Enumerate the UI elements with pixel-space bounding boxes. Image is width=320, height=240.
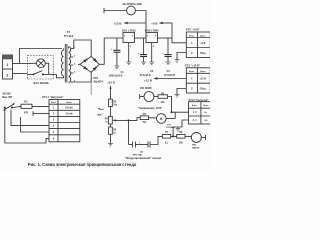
connector X3 jack bbox=[129, 142, 143, 148]
ground DA2 bbox=[149, 62, 154, 65]
svg-text:Общ: Общ bbox=[200, 52, 205, 55]
label VD1 bbox=[93, 76, 103, 83]
transformer T1 secondary winding bbox=[69, 47, 71, 83]
svg-text:Цепь: Цепь bbox=[200, 35, 206, 37]
ground C2 bbox=[141, 62, 146, 65]
svg-text:"Модулированный" сигнал: "Модулированный" сигнал bbox=[125, 156, 162, 160]
label SB pushbutton bbox=[2, 93, 12, 99]
svg-text:Конт.: Конт. bbox=[192, 105, 198, 107]
label C3 bbox=[164, 70, 175, 77]
terminal stub XT4.1 row2 bbox=[33, 111, 49, 115]
wire XT4.2 row2 down to chain bbox=[173, 120, 188, 136]
resistor R2 bbox=[109, 99, 118, 116]
wire XT4.1 row5 bbox=[21, 117, 49, 132]
ground R5 bbox=[108, 144, 113, 147]
meter PA2 bbox=[191, 132, 205, 142]
ground C3 bbox=[166, 62, 171, 65]
ground stub near XT4.2 bbox=[176, 127, 180, 131]
svg-text:Вил. ВП: Вил. ВП bbox=[2, 96, 12, 99]
svg-text:+5 В: +5 В bbox=[200, 42, 205, 45]
svg-text:+5 В: +5 В bbox=[151, 21, 158, 25]
pushbutton SB bbox=[3, 103, 21, 111]
svg-text:АН DS05А-12В: АН DS05А-12В bbox=[122, 2, 141, 6]
svg-text:+12 В: +12 В bbox=[144, 79, 153, 83]
svg-text:Рис. 1. Схема электрическая пр: Рис. 1. Схема электрическая принципиальн… bbox=[28, 162, 137, 167]
label C1 bbox=[109, 71, 125, 78]
device K circle bbox=[157, 114, 176, 124]
svg-text:Цепь: Цепь bbox=[203, 105, 209, 107]
wire bridge minus down bbox=[90, 82, 92, 95]
svg-text:"Вых.: "Вых. bbox=[98, 109, 105, 111]
meter PA1 bbox=[140, 87, 158, 102]
ground C1 bbox=[114, 66, 119, 69]
svg-text:1000,0х25 В: 1000,0х25 В bbox=[109, 75, 123, 78]
svg-text:SA1 В100Б: SA1 В100Б bbox=[33, 81, 48, 85]
svg-text:лин.": лин." bbox=[97, 114, 103, 116]
svg-text:2: 2 bbox=[6, 73, 8, 77]
svg-text:Конт.: Конт. bbox=[189, 35, 195, 37]
svg-text:Конт.: Конт. bbox=[189, 71, 195, 73]
label VT1 bbox=[167, 124, 176, 129]
resistor R7 bbox=[162, 132, 176, 144]
svg-text:ХТ3 "+12 В": ХТ3 "+12 В" bbox=[185, 64, 201, 68]
wire bridge plus to rail bbox=[99, 38, 123, 64]
wire SB to ground bus and XT4.1 row6 bbox=[5, 108, 49, 143]
wire XT3 row2 to ground bbox=[177, 89, 186, 95]
wire node to XT4.2 row1 bbox=[171, 112, 189, 119]
resistor R3 bbox=[140, 114, 156, 124]
transformer secondary pin stubs and numbers bbox=[71, 47, 76, 83]
svg-text:ХТ2 "+5 В": ХТ2 "+5 В" bbox=[186, 28, 201, 32]
ground XT2 bbox=[175, 60, 180, 63]
svg-text:РА1 М42В: РА1 М42В bbox=[140, 87, 152, 90]
svg-text:КЦ407А: КЦ407А bbox=[94, 79, 104, 83]
wire +5 vertical to XT2 bbox=[172, 23, 186, 43]
diode bridge VD1 bbox=[78, 56, 99, 72]
net label +12V top bbox=[113, 21, 146, 25]
resistor R1 bbox=[21, 100, 32, 114]
ground XT3 bbox=[175, 95, 180, 98]
wire XT2 row2 to ground bbox=[177, 53, 186, 60]
capacitor C2 bbox=[138, 38, 147, 62]
transformer T1 primary winding bbox=[62, 49, 64, 77]
connector XP1 mains plug bbox=[3, 55, 13, 79]
svg-text:+12 В: +12 В bbox=[113, 21, 122, 25]
capacitor C1 bbox=[111, 38, 120, 66]
svg-text:Нг: Нг bbox=[205, 112, 208, 114]
capacitor C4 bbox=[142, 136, 162, 147]
svg-text:"Напряжение, 20 В": "Напряжение, 20 В" bbox=[138, 107, 163, 110]
wire XT4.1 row4 bbox=[11, 110, 49, 126]
wire XP1 pin1 to lamp and top bus bbox=[13, 49, 62, 64]
capacitor C3 bbox=[162, 38, 171, 62]
svg-text:Общ: Общ bbox=[200, 87, 205, 90]
svg-text:+12 В: +12 В bbox=[200, 78, 207, 81]
svg-text:VD1: VD1 bbox=[93, 76, 99, 80]
svg-text:DA2 L7805: DA2 L7805 bbox=[145, 29, 159, 33]
regulator DA2 L7805 bbox=[145, 29, 159, 62]
indicator lamp HL1 top bbox=[104, 6, 146, 38]
switch SA1 contacts bbox=[27, 71, 63, 78]
resistor R5 bbox=[109, 127, 117, 144]
switch unit SA1 dashed enclosure bbox=[27, 56, 53, 80]
resistor R8 bbox=[177, 132, 191, 144]
lamp HL in switch bbox=[28, 59, 49, 75]
net label +5V top bbox=[151, 21, 172, 25]
svg-text:-10 мА: -10 мА bbox=[65, 113, 73, 116]
svg-text:1: 1 bbox=[6, 63, 8, 67]
ground DA1 bbox=[126, 62, 131, 65]
svg-text:Конт.: Конт. bbox=[51, 102, 57, 104]
wire secondary bottom to bridge bbox=[73, 72, 91, 82]
label X3 bbox=[132, 152, 143, 157]
connector table XT2 +5V bbox=[186, 28, 211, 58]
regulator DA1 L7812 bbox=[122, 29, 136, 62]
wire R6 to node bbox=[168, 97, 172, 113]
wire DA2 out to +5 node bbox=[158, 37, 173, 39]
svg-text:470: 470 bbox=[24, 111, 29, 114]
connector table XT3 +12V bbox=[185, 64, 211, 93]
transformer T1 label bbox=[64, 30, 74, 38]
svg-text:SPA-10В: SPA-10В bbox=[132, 154, 141, 157]
label C2 bbox=[139, 70, 153, 77]
svg-text:ХТ4.1 "Нагрузка": ХТ4.1 "Нагрузка" bbox=[42, 95, 64, 99]
wire R1 to XT4.1 row1 bbox=[32, 105, 49, 107]
wire DA1 out to DA2 in bbox=[135, 37, 147, 39]
svg-text:47,0х16 В: 47,0х16 В bbox=[139, 74, 150, 77]
svg-text:ТП-112: ТП-112 bbox=[64, 34, 74, 38]
wire secondary top to bridge bbox=[73, 40, 91, 56]
net label output line bbox=[97, 109, 105, 116]
wire XP1 pin2 to switch bbox=[13, 73, 28, 75]
svg-text:47,0х16 В: 47,0х16 В bbox=[164, 74, 175, 77]
svg-text:DA1 L7812: DA1 L7812 bbox=[122, 29, 136, 33]
svg-text:Цепь: Цепь bbox=[66, 102, 72, 104]
svg-text:М4248: М4248 bbox=[192, 146, 199, 149]
net label +12V feed potentiometer bbox=[107, 80, 115, 99]
svg-text:+12 В: +12 В bbox=[107, 80, 115, 84]
transformer T1 core bbox=[65, 44, 67, 83]
net label +12V to XT3 bbox=[144, 77, 186, 82]
connector table XT4.2 load bbox=[189, 99, 211, 124]
resistor R6 bbox=[158, 93, 168, 104]
potentiometer R4 bbox=[105, 116, 129, 127]
svg-text:Цепь: Цепь bbox=[200, 71, 206, 73]
wire wiper to R3 and to X3 bbox=[128, 118, 140, 145]
svg-text:+10 мА: +10 мА bbox=[65, 107, 73, 110]
connector table XT4.1 load bbox=[42, 95, 80, 142]
label PA2 bbox=[192, 143, 199, 149]
